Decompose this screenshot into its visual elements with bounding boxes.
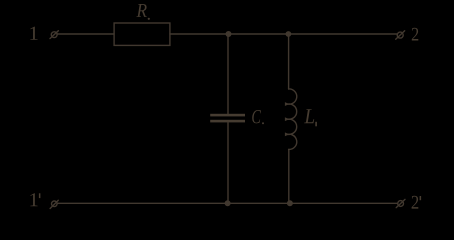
terminal 1prime circle [52, 201, 58, 207]
bottom rail wire [57, 202, 397, 204]
terminal 1 slash [50, 31, 58, 39]
terminal 2 slash [396, 31, 405, 39]
wire bottom of inductor [288, 149, 290, 203]
capacitor C plates [210, 114, 245, 123]
label C [252, 110, 264, 124]
terminal 1 circle [51, 32, 57, 38]
label L [304, 109, 317, 126]
wire bottom of capacitor [227, 122, 229, 203]
terminal 2 circle [397, 32, 403, 38]
terminal 2prime label [412, 196, 422, 209]
wire terminal1 to resistor [57, 33, 114, 35]
inductor L coil [286, 89, 297, 149]
terminal 2prime slash [396, 199, 405, 207]
terminal 1prime label [30, 193, 40, 206]
node bottom capacitor junction [225, 201, 230, 206]
label R [136, 4, 150, 20]
wire resistor to terminal 2 [170, 33, 397, 35]
terminal 2prime circle [398, 201, 404, 207]
terminal 1 label [30, 27, 37, 40]
terminal 2 label [412, 28, 419, 41]
node bottom inductor junction [288, 201, 293, 206]
terminal 1prime slash [50, 200, 58, 208]
resistor R [114, 23, 170, 45]
node top capacitor junction [226, 32, 231, 37]
wire top of inductor [288, 34, 290, 89]
wire top of capacitor [227, 34, 229, 114]
node top inductor junction [286, 32, 290, 36]
